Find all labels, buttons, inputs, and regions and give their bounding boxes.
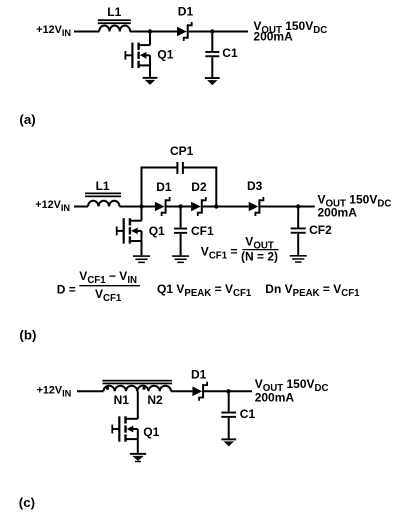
phasing dot N1 (c) xyxy=(106,387,109,390)
label VOUT 150VDC (b) xyxy=(318,193,392,210)
wire D1 to output (a) xyxy=(189,31,248,33)
node C1 top (a) xyxy=(210,29,214,33)
wire input (a) xyxy=(74,31,99,33)
diode D1 (c) xyxy=(192,382,207,401)
transformer T1 core (c) xyxy=(102,380,172,385)
wire input (b) xyxy=(74,206,88,208)
svg-text:200mA: 200mA xyxy=(255,391,295,405)
capacitor CF1 (b) xyxy=(174,207,187,256)
label N1 (c) xyxy=(114,393,130,407)
svg-text:C1: C1 xyxy=(222,46,238,60)
equation Q1 VPEAK = VCF1 xyxy=(157,282,252,299)
wire L1 to D1 (b) xyxy=(120,206,155,208)
node Q1 drain (a) xyxy=(148,29,152,33)
svg-text:Q1: Q1 xyxy=(149,224,165,238)
node CF1 top (b) xyxy=(178,204,182,208)
svg-text:Dn VPEAK​ = VCF1​: Dn VPEAK​ = VCF1​ xyxy=(265,282,360,299)
svg-text:(N = 2): (N = 2) xyxy=(241,250,278,264)
transistor Q1 label (c) xyxy=(143,425,159,439)
inductor L1 (a) xyxy=(98,19,131,31)
diode D1 (b) xyxy=(155,197,170,216)
ground C1 (c) xyxy=(221,438,236,446)
transistor Q1 label (b) xyxy=(149,224,165,238)
capacitor CP1 branch (b) xyxy=(141,162,218,207)
svg-text:N2: N2 xyxy=(147,393,163,407)
transistor Q1 label (a) xyxy=(157,48,173,62)
label +12VIN input (a) xyxy=(36,24,71,38)
capacitor C1 (c) xyxy=(221,391,236,438)
transistor Q1 (a) xyxy=(125,32,151,77)
capacitor C1 (a) xyxy=(205,32,219,78)
caption (a) xyxy=(19,112,35,127)
svg-text:VCF1​ − VIN​: VCF1​ − VIN​ xyxy=(79,269,137,286)
ground C1 (a) xyxy=(205,77,220,85)
svg-text:+12VIN​: +12VIN​ xyxy=(37,384,72,398)
diode D3 (b) xyxy=(249,197,264,216)
svg-text:D =: D = xyxy=(57,282,76,296)
transformer winding N1 (c) xyxy=(104,386,138,392)
capacitor CF2 (b) xyxy=(291,207,306,256)
ground CF1 (b) xyxy=(172,255,189,263)
caption (b) xyxy=(19,328,36,343)
wire D2 to D3 (b) xyxy=(203,206,249,208)
label 200mA (a) xyxy=(253,30,293,44)
svg-text:VCF1​: VCF1​ xyxy=(95,287,122,304)
ground Q1 (c) xyxy=(130,453,146,462)
svg-text:D1: D1 xyxy=(156,180,172,194)
label N2 (c) xyxy=(147,393,163,407)
inductor L1 (b) xyxy=(85,193,121,207)
svg-text:D2: D2 xyxy=(191,180,207,194)
svg-text:Q1: Q1 xyxy=(143,425,159,439)
label 200mA (c) xyxy=(255,391,295,405)
diode D1 label (b) xyxy=(156,180,172,194)
capacitor CP1 label (b) xyxy=(170,144,194,158)
ground CF2 (b) xyxy=(290,255,307,263)
svg-text:200mA: 200mA xyxy=(318,206,358,220)
wire N2 to D1 (c) xyxy=(171,390,192,392)
svg-text:Q1: Q1 xyxy=(157,48,173,62)
transformer winding N2 (c) xyxy=(137,386,171,392)
capacitor C1 label (a) xyxy=(222,46,238,60)
wire L1 to D1 (a) xyxy=(130,31,177,33)
diode D2 (b) xyxy=(191,197,206,216)
node CP1 right (b) xyxy=(214,204,218,208)
wire D3 to output (b) xyxy=(260,206,314,208)
svg-text:C1: C1 xyxy=(240,407,256,421)
caption (c) xyxy=(19,495,35,510)
diode D2 label (b) xyxy=(191,180,207,194)
svg-text:(b): (b) xyxy=(19,328,36,343)
label +12VIN input (b) xyxy=(35,199,70,213)
svg-text:L1: L1 xyxy=(107,5,121,19)
label VOUT 150VDC (c) xyxy=(255,377,329,394)
capacitor C1 label (c) xyxy=(240,407,256,421)
capacitor CF2 label (b) xyxy=(309,223,332,237)
label VOUT 150VDC (a) xyxy=(253,19,327,36)
equation VCF1 = VOUT over (N=2) xyxy=(201,235,279,264)
svg-text:+12VIN​: +12VIN​ xyxy=(35,199,70,213)
svg-text:Q1 VPEAK​ = VCF1​: Q1 VPEAK​ = VCF1​ xyxy=(157,282,252,299)
equation D = (VCF1 minus VIN) over VCF1 xyxy=(57,269,140,304)
svg-text:D1: D1 xyxy=(191,368,207,382)
capacitor CF1 label (b) xyxy=(191,224,214,238)
svg-text:CF1: CF1 xyxy=(191,224,214,238)
inductor L1 label (b) xyxy=(96,179,110,193)
phasing dot N2 (c) xyxy=(142,387,145,390)
node CF2 top (b) xyxy=(296,204,300,208)
svg-text:(c): (c) xyxy=(19,495,35,510)
node C1 top (c) xyxy=(226,389,230,393)
label +12VIN input (c) xyxy=(37,384,72,398)
ground Q1 (b) xyxy=(133,255,150,263)
svg-text:+12VIN​: +12VIN​ xyxy=(36,24,71,38)
equation Dn VPEAK = VCF1 xyxy=(265,282,360,299)
svg-text:L1: L1 xyxy=(96,179,110,193)
inductor L1 label (a) xyxy=(107,5,121,19)
svg-text:CF2: CF2 xyxy=(309,223,332,237)
transistor Q1 (c) xyxy=(111,391,137,453)
node Q1 drain CP1 left (b) xyxy=(139,204,143,208)
wire input (c) xyxy=(77,390,104,392)
wire D1 to D2 (b) xyxy=(167,206,192,208)
svg-text:N1: N1 xyxy=(114,393,130,407)
diode D1 label (a) xyxy=(178,5,194,19)
diode D1 label (c) xyxy=(191,368,207,382)
diode D3 label (b) xyxy=(247,179,263,193)
svg-text:D1: D1 xyxy=(178,5,194,19)
svg-text:200mA: 200mA xyxy=(253,30,293,44)
ground Q1 source (a) xyxy=(143,77,158,85)
transistor Q1 (b) xyxy=(116,207,142,256)
svg-text:VCF1​ =: VCF1​ = xyxy=(201,245,238,262)
svg-text:CP1: CP1 xyxy=(170,144,194,158)
diode D1 (a) xyxy=(177,22,192,41)
svg-text:(a): (a) xyxy=(19,112,35,127)
label 200mA (b) xyxy=(318,206,358,220)
wire D1 to output (c) xyxy=(204,390,252,392)
svg-text:D3: D3 xyxy=(247,179,263,193)
